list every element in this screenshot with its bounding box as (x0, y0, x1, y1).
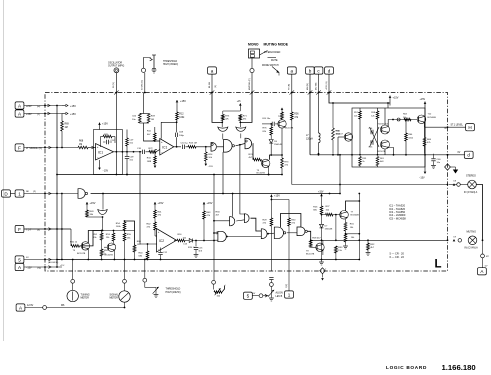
wire top6 vertical (318, 74, 320, 92)
connector A1 (+21V) (15, 102, 24, 109)
meter tuning (72, 283, 74, 290)
gate D5 (211, 143, 216, 152)
resistor R73 (281, 155, 283, 158)
wire T7 collector (346, 201, 360, 211)
svg-text:+15V: +15V (318, 191, 324, 193)
svg-text:METER: METER (110, 297, 119, 300)
wire x292 down (291, 120, 293, 185)
wire lamp2 down (482, 240, 484, 254)
svg-text:BC107B: BC107B (306, 253, 315, 255)
box flipflop outline (352, 108, 425, 167)
resistor R55 (124, 230, 126, 233)
cap C55 (370, 140, 372, 144)
transistor T12 (417, 115, 426, 124)
wire top3 vertical (251, 73, 253, 93)
wire top2 vertical (211, 74, 213, 92)
wire rail 230 (93, 230, 135, 232)
svg-text:−15V: −15V (419, 177, 425, 180)
wire rail x57 (56, 106, 58, 268)
wire A4 row (25, 307, 43, 309)
resistor R16 (177, 239, 185, 242)
resistor R54 (124, 221, 126, 222)
resistor R26 (320, 206, 323, 214)
svg-text:1M: 1M (151, 119, 154, 121)
svg-text:5: 5 (247, 294, 250, 299)
connector circle align (270, 283, 274, 287)
connector box A5 (478, 268, 487, 275)
trimmer threshold low (144, 282, 146, 287)
resistor R51 (101, 231, 103, 234)
svg-text:METER: METER (81, 297, 90, 300)
svg-text:BL 1M: BL 1M (209, 82, 211, 88)
switch mono (249, 49, 260, 58)
power +15V IC1a (99, 123, 101, 127)
op-amp IC1a (96, 144, 114, 160)
cap C10 series (182, 145, 184, 149)
wire D11 out (251, 218, 262, 231)
gate D7 or (245, 138, 252, 149)
svg-text:+15V: +15V (102, 123, 108, 126)
svg-text:100p: 100p (179, 135, 185, 137)
svg-text:R56: R56 (294, 114, 299, 116)
wire T11b link (388, 148, 393, 155)
svg-text:120µH: 120µH (306, 139, 313, 141)
svg-text:MONO: MONO (248, 43, 259, 47)
wire signal meter bottom (124, 302, 126, 307)
diode D6a (185, 240, 189, 242)
wire T12 emitter (423, 122, 425, 127)
svg-text:+15°: +15° (60, 265, 65, 267)
wire T5 emitter (87, 249, 89, 260)
svg-text:IC2: IC2 (159, 239, 164, 243)
resistor R64 (424, 127, 426, 137)
wire D2 to T5 (80, 231, 103, 246)
connector circle top1 (141, 68, 145, 72)
testpoint diamond right (445, 164, 451, 170)
svg-text:R13 1M: R13 1M (189, 142, 197, 144)
svg-text:MODE SWITCH: MODE SWITCH (262, 65, 279, 67)
resistor R11 (154, 127, 156, 133)
wire A2 row (24, 113, 62, 115)
wire row193 dots (102, 193, 104, 195)
transistor T8 (316, 243, 324, 251)
svg-text:THRESHOLD: THRESHOLD (163, 61, 178, 63)
resistor R56 (291, 93, 293, 113)
connector circle M7 (481, 254, 485, 258)
resistor R33 (335, 240, 337, 246)
resistor R43 (203, 208, 205, 212)
resistor R30 (288, 200, 290, 219)
connector box top7 (325, 67, 334, 74)
wire IC2 input (140, 243, 157, 245)
cap C60 (433, 154, 435, 159)
transistor T6 (113, 241, 115, 243)
svg-text:50 (V): 50 (V) (113, 82, 115, 88)
resistor T5 base (71, 245, 80, 248)
svg-text:R69: R69 (65, 124, 70, 126)
svg-text:+15V: +15V (274, 195, 280, 198)
resistor R63 ff (404, 118, 411, 121)
wire A1 row (24, 105, 62, 107)
wire top1 into board (143, 93, 145, 113)
svg-text:+: + (158, 230, 160, 234)
connector box top2 (208, 67, 217, 74)
box IC1a outline (94, 130, 123, 175)
transistor T7 (340, 211, 349, 220)
svg-text:HIGH (19kHz): HIGH (19kHz) (166, 291, 181, 294)
wire rail x62 with resistor R69 (61, 114, 63, 122)
testpoint diamond bottom (320, 268, 325, 274)
node +15V row1 (62, 105, 66, 107)
svg-text:MUTING MODE: MUTING MODE (264, 43, 289, 47)
connector 5 (0V) (15, 256, 24, 263)
svg-text:1: 1 (18, 191, 21, 196)
power +15V R43 (203, 202, 205, 208)
op-amp IC2 (157, 229, 177, 253)
svg-text:OSCILLATOR: OSCILLATOR (108, 61, 122, 64)
power +15V IC1b (176, 100, 178, 105)
svg-text:(X): (X) (37, 230, 40, 232)
svg-text:1: 1 (288, 292, 291, 297)
transistor T10 (344, 133, 352, 141)
svg-text:5: 5 (18, 257, 21, 262)
connector circle pot (212, 280, 216, 284)
svg-text:LEV B: LEV B (276, 295, 283, 298)
lamp muting (468, 236, 477, 245)
power +15V R49 (86, 202, 88, 208)
svg-text:MUTING (P): MUTING (P) (249, 78, 251, 90)
connector circle signal (123, 279, 127, 283)
resistor R31 (345, 219, 347, 223)
wire x144 down (144, 260, 146, 279)
wire top5 vertical (309, 74, 311, 92)
wire ff cross1 (370, 127, 380, 147)
svg-text:b: b (309, 68, 312, 73)
gate D10 (232, 194, 234, 217)
svg-text:MU (N): MU (N) (307, 83, 309, 90)
connector box top5 (306, 67, 315, 74)
svg-text:−15V: −15V (208, 166, 214, 168)
svg-text:BC107B: BC107B (285, 127, 294, 129)
resistor R75 (222, 111, 224, 115)
resistor R42 (154, 218, 156, 222)
wire x124 down (124, 260, 126, 280)
svg-text:6 — CR · 22: 6 — CR · 22 (390, 255, 405, 259)
wire x116 col (115, 93, 117, 175)
svg-text:(Yq): (Yq) (37, 268, 41, 270)
board outline (dash-dot) (45, 93, 448, 272)
wire ic1b out (174, 146, 181, 148)
resistor R28 (309, 240, 312, 247)
resistor R49 (86, 208, 88, 211)
diode D5a (270, 135, 272, 139)
wire ic1a out (114, 151, 134, 153)
gate D9 shield (236, 127, 246, 131)
connector A4 (12.6V) (16, 304, 25, 311)
svg-text:(S): (S) (215, 85, 217, 88)
wire row stereo (447, 184, 449, 186)
connector F2 (7.5T) (15, 225, 24, 232)
wire T8 collector (322, 240, 324, 244)
trimmer threshold-high top (144, 58, 151, 69)
svg-text:50 1M (S): 50 1M (S) (142, 80, 144, 90)
wire top3 into board (240, 93, 252, 123)
svg-text:1N4148: 1N4148 (274, 144, 282, 146)
wire top1 vertical (144, 73, 146, 93)
resistor R66 (133, 245, 136, 252)
wire long 240 (311, 239, 448, 241)
svg-text:BC560B: BC560B (428, 117, 437, 119)
resistor R68 (78, 146, 88, 149)
svg-text:BC107B: BC107B (77, 253, 86, 255)
svg-text:C05 10n: C05 10n (262, 118, 271, 120)
svg-text:IN (CYAN) A: IN (CYAN) A (464, 191, 478, 194)
wire x321 to gnd (321, 240, 323, 259)
svg-text:+15V: +15V (180, 100, 186, 103)
wire ff top stub (387, 103, 389, 108)
wire bus lower (57, 259, 359, 261)
connector box d (464, 151, 473, 158)
svg-text:ST (R): ST (R) (289, 84, 291, 90)
svg-text:1M: 1M (65, 127, 68, 129)
wire D10 out (236, 220, 244, 221)
cap C15 (195, 241, 197, 247)
op-amp IC1b (160, 139, 174, 156)
connector 1 (15, 190, 24, 197)
wire D14 out (308, 231, 311, 240)
connector circle tuning (71, 279, 75, 283)
wire x310 down (309, 93, 311, 155)
svg-text:d: d (328, 68, 331, 73)
wire jog x134 (125, 221, 135, 245)
wire T11 collector up (388, 120, 417, 127)
svg-text:1.166.180: 1.166.180 (442, 363, 476, 372)
svg-text:F: F (18, 145, 21, 150)
svg-text:+15V: +15V (70, 105, 76, 108)
svg-text:IC1: IC1 (98, 150, 103, 154)
node +15V row2 (62, 113, 66, 115)
svg-text:R28 4k7: R28 4k7 (312, 238, 321, 240)
svg-text:C10 1µ: C10 1µ (181, 142, 189, 144)
power +15V ff (389, 96, 391, 104)
svg-text:+: + (97, 145, 99, 149)
resistor R61 ff low (376, 157, 379, 166)
resistor R27 (322, 214, 326, 216)
page left edge (3, 0, 5, 341)
svg-text:R12: R12 (179, 114, 184, 116)
svg-text:(m): (m) (37, 106, 41, 108)
wire x271 pot down (269, 277, 273, 279)
gate D13 nand (274, 227, 283, 239)
svg-text:OUTPUT (MPX): OUTPUT (MPX) (108, 66, 124, 68)
resistor R10 below (155, 149, 157, 151)
svg-text:100k: 100k (179, 117, 185, 119)
connector A2 (+15V) (15, 110, 24, 117)
connector box 5b (244, 292, 253, 299)
svg-text:+15V: +15V (393, 97, 399, 100)
wire diode to R73 (270, 143, 272, 155)
connector box top4 (287, 67, 296, 74)
svg-text:12.6V: 12.6V (27, 304, 34, 307)
svg-text:MUTING: MUTING (467, 230, 477, 233)
svg-text:R68: R68 (79, 141, 84, 143)
cap C52 feedback (106, 140, 108, 144)
resistor R71 (239, 115, 242, 121)
svg-text:C(Z): C(Z) (286, 284, 288, 288)
connector D (ext) (2, 190, 11, 197)
resistor R14 pulldown (205, 147, 207, 152)
svg-text:BC107: BC107 (336, 134, 343, 136)
gate D14 nand (297, 227, 305, 236)
gate D12 nand (218, 231, 226, 241)
svg-text:0V: 0V (458, 152, 461, 154)
svg-text:T11 BC753: T11 BC753 (378, 123, 389, 125)
wire x214 col (213, 175, 215, 281)
resistor R40 (147, 244, 149, 251)
svg-text:L: L (435, 258, 442, 270)
svg-text:+15V (G): +15V (G) (326, 81, 328, 90)
svg-text:STEREO: STEREO (466, 175, 476, 178)
resistor R76 (270, 124, 272, 127)
svg-text:ST.1 LEVEL: ST.1 LEVEL (451, 125, 464, 127)
resistor R41 (154, 208, 156, 211)
transistor T4 (278, 120, 286, 128)
wire row muting (458, 239, 462, 243)
svg-text:F: F (18, 227, 21, 232)
meter signal (124, 283, 126, 291)
connector A3 (-15V) (15, 263, 24, 270)
connector circle osc (114, 68, 119, 73)
cap C12 (160, 248, 162, 253)
transistor T11b (381, 140, 390, 149)
svg-text:BC107B: BC107B (105, 254, 114, 256)
wire x292 to right row (292, 184, 448, 186)
svg-text:MO (W): MO (W) (315, 82, 317, 90)
resistor R12 (176, 105, 178, 112)
resistor R35 (344, 234, 347, 242)
connector box H (466, 124, 475, 131)
connector circle th (143, 278, 147, 282)
svg-text:INTERLOCKED: INTERLOCKED (264, 52, 281, 54)
svg-text:−: − (97, 155, 99, 159)
wire A3 row (24, 266, 62, 268)
wire x359 to bus (358, 240, 360, 259)
diode D7 (321, 215, 323, 225)
resistor R60 ff (377, 108, 379, 111)
svg-text:HIGH (VIDEO): HIGH (VIDEO) (163, 64, 178, 66)
transistor T3 (261, 160, 263, 164)
wire rail x62 lower (61, 194, 63, 260)
svg-text:LOGIC BOARD: LOGIC BOARD (386, 365, 427, 370)
wire F2 row (24, 228, 71, 230)
svg-text:+15V: +15V (420, 98, 426, 101)
resistor R58 (332, 128, 335, 140)
svg-text:−: − (158, 247, 160, 251)
power +15V R29 (270, 195, 272, 200)
wire lamp1 loop (476, 185, 482, 241)
power -15V ff (424, 167, 426, 172)
wire r29 r30 top (271, 199, 289, 201)
svg-text:R50 1k: R50 1k (70, 242, 78, 244)
svg-text:a: a (211, 68, 214, 73)
pot level (213, 284, 215, 289)
svg-text:+: + (161, 140, 163, 144)
wire to A5 (482, 258, 484, 268)
resistor R59 ff low (359, 155, 361, 157)
wire x340 col (339, 155, 341, 194)
wire D6 stem (222, 152, 224, 193)
transistor T11a (381, 125, 390, 134)
switch mode arrow (272, 67, 279, 73)
wire top2 into board (212, 93, 222, 123)
connector F1 (LT SIGNAL) (15, 144, 24, 151)
wire bus upper (57, 174, 282, 176)
svg-text:H: H (468, 125, 471, 130)
gate D1 nand (78, 189, 85, 199)
wire circle to pot (263, 295, 268, 297)
svg-text:−15V: −15V (103, 170, 109, 173)
resistor pair C06 R09 (143, 112, 145, 115)
transistor T5 (81, 242, 89, 250)
resistor R57 ff (359, 108, 361, 111)
connector box top6 (314, 67, 323, 74)
wire T12 collector (424, 102, 426, 168)
wire 5 row (24, 259, 60, 261)
svg-text:a: a (291, 68, 294, 73)
svg-text:+15V: +15V (70, 113, 76, 116)
wire rail ff mid (310, 154, 465, 156)
cap C54 (370, 130, 372, 134)
wire T4 col rail (281, 107, 283, 109)
svg-text:+15V: +15V (158, 202, 164, 205)
wire row H (424, 126, 465, 128)
resistor R53 (113, 231, 115, 234)
svg-text:+15V: +15V (207, 202, 213, 205)
wire T3 collector (270, 155, 283, 160)
wire 5b to circle (252, 295, 259, 297)
gate D13a (261, 229, 267, 239)
wire x359 col (358, 194, 360, 241)
lamp stereo (468, 180, 477, 189)
svg-text:+15V: +15V (90, 202, 96, 205)
wire mono to circle (251, 58, 253, 68)
gate D11 (240, 145, 245, 216)
resistor R60b (405, 120, 407, 134)
resistor R08 col (126, 130, 128, 139)
wire x140 col (139, 152, 141, 244)
svg-text:IN (CYAN) A: IN (CYAN) A (465, 247, 479, 250)
svg-text:1M: 1M (79, 144, 82, 146)
gate D2 shield (102, 194, 104, 210)
pot align (270, 287, 272, 291)
wire F1 row (24, 147, 78, 149)
gate D6 nand (224, 140, 233, 153)
resistor R52 (101, 240, 103, 249)
wire D12 out (227, 236, 262, 238)
svg-text:BC107B: BC107B (378, 151, 386, 153)
wire meters row (47, 307, 125, 309)
connector circle M6 (43, 306, 47, 310)
wire x336 col (335, 215, 337, 241)
wire ff cross2 (370, 127, 380, 147)
wire T5 collector (88, 231, 93, 243)
resistor R29 (270, 200, 272, 219)
svg-text:BC560B: BC560B (351, 215, 360, 217)
wire D row (24, 193, 78, 195)
svg-text:IC5 – MC4558: IC5 – MC4558 (389, 216, 406, 220)
wire top7 vertical (328, 74, 330, 92)
svg-text:d: d (467, 153, 470, 158)
